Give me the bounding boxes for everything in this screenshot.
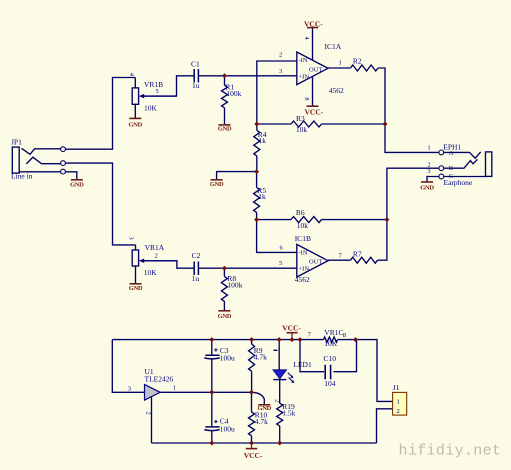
svg-text:VCC-: VCC- — [244, 451, 263, 460]
rail splitter U1 TLE2426 triangle — [145, 385, 161, 401]
svg-text:2: 2 — [397, 408, 400, 415]
wire VR1B bottom lead to GND — [134, 104, 136, 118]
wire R7 to EPH1 pin2 — [378, 168, 439, 260]
capacitor C10 104 plates — [325, 365, 330, 380]
junction R3/out node — [383, 122, 388, 127]
svg-text:1: 1 — [339, 60, 342, 67]
minus marker near LED — [273, 349, 277, 351]
wire jack pin2 to VR1A top — [66, 163, 136, 245]
jack JP1 pin 3 circle — [61, 169, 66, 174]
VR1B wiper arrow — [139, 94, 144, 98]
junction R9 top rail — [249, 337, 254, 342]
junction VCC top rail — [290, 337, 295, 342]
resistor R1 leads — [224, 76, 226, 124]
svg-text:J1: J1 — [393, 383, 400, 392]
resistor R8 leads — [223, 268, 225, 310]
power VCC- bar top rail PSU — [287, 332, 298, 334]
svg-text:GND: GND — [129, 121, 143, 128]
svg-text:100u: 100u — [220, 424, 235, 433]
junction R5/R6 node — [254, 217, 259, 222]
junction LED top rail — [277, 337, 282, 342]
svg-text:1: 1 — [397, 399, 400, 406]
wire VR1A top lead — [135, 245, 137, 250]
wire VR1B top lead — [134, 78, 136, 88]
wire jack pin1 to VR1B top — [66, 78, 136, 150]
svg-text:10K: 10K — [144, 104, 158, 113]
resistor R5 1k — [254, 187, 260, 212]
svg-text:VCC-: VCC- — [305, 108, 324, 117]
svg-text:R6: R6 — [296, 208, 305, 217]
junction R6/out node — [384, 217, 389, 222]
wire R2 to EPH1 pin1 — [378, 68, 439, 152]
svg-text:IC1A: IC1A — [325, 42, 342, 51]
svg-text:2: 2 — [274, 399, 281, 402]
wire node to IC1B pin6 — [257, 220, 297, 253]
resistor R7 — [351, 257, 378, 263]
jack JP1 pin 1 circle — [61, 147, 66, 152]
svg-text:C2: C2 — [192, 251, 201, 260]
svg-text:GND: GND — [420, 185, 434, 192]
LED1 top lead — [278, 340, 280, 370]
power VCC- bar bottom rail PSU — [246, 448, 257, 450]
svg-text:2: 2 — [155, 252, 158, 259]
junction R4/R5 node — [254, 169, 259, 174]
wire U1 output row — [160, 391, 251, 393]
svg-text:2: 2 — [279, 51, 282, 58]
wire U1 pin2 down to bottom rail — [151, 397, 153, 443]
svg-text:4.7k: 4.7k — [254, 353, 267, 362]
connector J1 box — [393, 392, 407, 415]
svg-text:10k: 10k — [297, 221, 309, 230]
op-amp IC1B triangle — [297, 244, 328, 277]
capacitor C1 leads — [199, 75, 297, 77]
capacitor C4 leads — [211, 392, 213, 443]
svg-text:5: 5 — [279, 260, 282, 267]
svg-text:GND: GND — [70, 182, 84, 189]
svg-text:R2: R2 — [353, 56, 362, 65]
ground bar R1 — [219, 124, 231, 126]
svg-text:Earphone: Earphone — [444, 178, 473, 187]
EPH1 ring contact spring — [444, 159, 478, 168]
wire EPH1 pin3 to ground — [427, 177, 439, 182]
svg-text:OUT: OUT — [309, 259, 322, 266]
svg-text:10K: 10K — [324, 339, 338, 348]
resistor R10 4.7k — [249, 412, 255, 436]
junction R9/R10 node — [249, 390, 254, 395]
svg-text:GND: GND — [129, 285, 143, 292]
capacitor C3 plus sign — [214, 348, 217, 351]
resistor R2 — [351, 65, 379, 71]
svg-text:1: 1 — [173, 385, 176, 392]
svg-text:+IN: +IN — [299, 266, 310, 273]
junction C3 top rail — [209, 337, 214, 342]
svg-text:4.7k: 4.7k — [255, 417, 268, 426]
power VCC- stem bottom rail PSU — [251, 443, 253, 449]
ground bar VR1A — [130, 283, 142, 285]
capacitor C1 1u plates — [194, 69, 198, 83]
wire IC1B out to R7 — [328, 259, 351, 261]
svg-text:+IN: +IN — [299, 73, 310, 80]
svg-text:8: 8 — [343, 332, 346, 339]
resistor R9 leads — [251, 340, 253, 393]
wire VR1A wiper to C2 — [143, 261, 194, 268]
svg-text:IC1B: IC1B — [295, 234, 311, 243]
LED1 cathode bar — [273, 379, 286, 381]
connector JP1 Line in jack body — [12, 147, 19, 173]
ground bar PSU — [258, 404, 270, 406]
resistor R4 1k — [254, 130, 260, 156]
resistor R10 leads — [251, 392, 253, 443]
svg-text:1u: 1u — [192, 274, 200, 283]
ground bar mid node — [211, 179, 223, 181]
resistor R8 100k — [221, 276, 227, 301]
resistor R6 leads — [257, 219, 387, 221]
wire mid node to PSU ground — [252, 392, 265, 404]
wire VR1C left lead — [300, 339, 324, 341]
svg-text:C1: C1 — [191, 60, 200, 69]
capacitor C2 leads — [199, 267, 297, 269]
resistor R5 leads — [256, 172, 258, 220]
svg-text:5: 5 — [156, 88, 159, 95]
svg-text:VR1B: VR1B — [144, 80, 163, 89]
wire node to IC1A pin2 — [257, 61, 297, 124]
junction C1/R1 node — [222, 73, 227, 78]
svg-text:100k: 100k — [226, 89, 241, 98]
capacitor C3 leads — [211, 340, 213, 393]
jack EPH1 pin 1 circle — [439, 150, 444, 155]
wire IC1A out to R2 — [328, 67, 351, 69]
svg-text:C10: C10 — [324, 354, 337, 363]
wire VR1C right to J1 pin1 — [338, 340, 393, 402]
svg-text:4562: 4562 — [329, 86, 344, 95]
wire VR1A bottom lead to GND — [135, 266, 137, 283]
wire jack pin3 to ground — [66, 172, 77, 180]
wire C10 right branch — [334, 340, 357, 372]
svg-text:-IN: -IN — [299, 57, 308, 64]
junction R19 bottom rail — [277, 441, 282, 446]
LED1 arrowheads — [290, 375, 294, 383]
op-amp IC1A power stems — [312, 28, 314, 106]
svg-text:3: 3 — [279, 68, 282, 75]
potentiometer VR1C 10K — [324, 337, 338, 342]
svg-text:-IN: -IN — [299, 249, 308, 256]
wire VR1B wiper to C1 — [143, 76, 194, 96]
svg-text:LED1: LED1 — [293, 360, 312, 369]
svg-text:1u: 1u — [192, 81, 200, 90]
ground bar VR1B — [129, 117, 141, 119]
svg-text:104: 104 — [324, 379, 336, 388]
svg-text:OUT: OUT — [309, 66, 322, 73]
svg-text:A: A — [449, 150, 454, 157]
JP1 ring contact spring — [26, 157, 60, 164]
JP1 sleeve wire — [19, 171, 60, 173]
wire bottom rail to J1 pin2 — [377, 409, 393, 443]
svg-text:8: 8 — [303, 97, 310, 100]
svg-text:10K: 10K — [144, 268, 158, 277]
resistor R1 100k — [222, 85, 228, 108]
wire C10 left branch — [300, 340, 324, 372]
svg-text:100k: 100k — [227, 280, 242, 289]
JP1 tip contact spring — [22, 148, 61, 154]
ground bar R8 — [218, 310, 230, 312]
svg-text:3: 3 — [427, 168, 430, 175]
svg-text:VCC-: VCC- — [304, 19, 323, 28]
svg-text:VCC-: VCC- — [282, 323, 301, 332]
EPH1 sleeve wire — [444, 176, 486, 178]
junction C4 bottom rail — [209, 441, 214, 446]
wire left rail down to U1 input — [112, 340, 144, 393]
svg-text:3: 3 — [128, 385, 131, 392]
LED1 arrows — [288, 373, 293, 382]
svg-text:GND: GND — [210, 181, 224, 188]
capacitor C4 plus sign — [214, 420, 217, 423]
resistor R6 10k — [291, 217, 322, 223]
capacitor C2 1u plates — [194, 262, 198, 276]
resistor R9 4.7k — [249, 344, 255, 371]
svg-text:100u: 100u — [220, 353, 235, 362]
svg-text:1: 1 — [427, 145, 430, 152]
svg-text:GND: GND — [218, 126, 232, 133]
svg-text:R7: R7 — [353, 249, 362, 258]
svg-text:1k: 1k — [259, 136, 267, 145]
wire mid node to ground — [217, 172, 257, 180]
svg-text:2: 2 — [145, 412, 152, 415]
resistor R3 10k — [291, 121, 322, 127]
EPH1 tip contact spring — [444, 152, 481, 158]
potentiometer VR1B body — [132, 88, 138, 104]
svg-text:3: 3 — [127, 236, 134, 239]
junction VR1C right top rail — [353, 337, 358, 342]
power VCC- bar above IC1A — [307, 27, 318, 29]
jack EPH1 pin 2 circle — [439, 166, 444, 171]
svg-text:4562: 4562 — [295, 275, 310, 284]
junction C2/R8 node — [222, 266, 227, 271]
potentiometer VR1A body — [132, 250, 138, 266]
jack EPH1 pin 3 circle — [439, 174, 444, 179]
ground bar jack JP1 — [71, 179, 83, 181]
capacitor C3 100u plates — [204, 355, 219, 359]
wire bottom rail of PSU — [152, 442, 377, 444]
resistor R19 1.5k — [277, 403, 283, 426]
junction C10 branch top rail — [298, 337, 303, 342]
junction C3/out row — [209, 390, 214, 395]
power VCC- bar below IC1A — [307, 105, 319, 107]
VR1A wiper arrow — [139, 259, 144, 263]
svg-text:10k: 10k — [296, 125, 308, 134]
connector EPH1 jack body — [486, 152, 492, 177]
svg-text:hifidiy.net: hifidiy.net — [399, 443, 502, 460]
svg-text:VR1C: VR1C — [324, 328, 343, 337]
svg-text:VR1A: VR1A — [145, 243, 165, 252]
svg-text:1.5k: 1.5k — [282, 409, 295, 418]
LED1 bottom lead / resistor R19 leads — [279, 380, 281, 443]
svg-text:B: B — [449, 165, 454, 172]
svg-text:JP1: JP1 — [11, 138, 22, 147]
svg-text:GND: GND — [218, 313, 232, 320]
svg-text:TLE2426: TLE2426 — [145, 375, 174, 384]
capacitor C4 100u plates — [204, 427, 219, 431]
ground bar EPH1 — [421, 181, 433, 183]
svg-text:1k: 1k — [258, 192, 266, 201]
LED1 body — [273, 370, 287, 379]
resistor R4 leads — [256, 124, 258, 172]
resistor R3 leads — [257, 123, 385, 125]
junction R10 bottom rail — [249, 441, 254, 446]
power VCC- stem top rail PSU — [291, 333, 293, 340]
junction R3/R4 node — [254, 122, 259, 127]
op-amp IC1A triangle — [297, 52, 328, 85]
wire top rail of PSU — [112, 339, 300, 341]
svg-text:R3: R3 — [296, 114, 305, 123]
jack JP1 pin 2 circle — [61, 161, 66, 166]
svg-text:Line in: Line in — [11, 172, 33, 181]
